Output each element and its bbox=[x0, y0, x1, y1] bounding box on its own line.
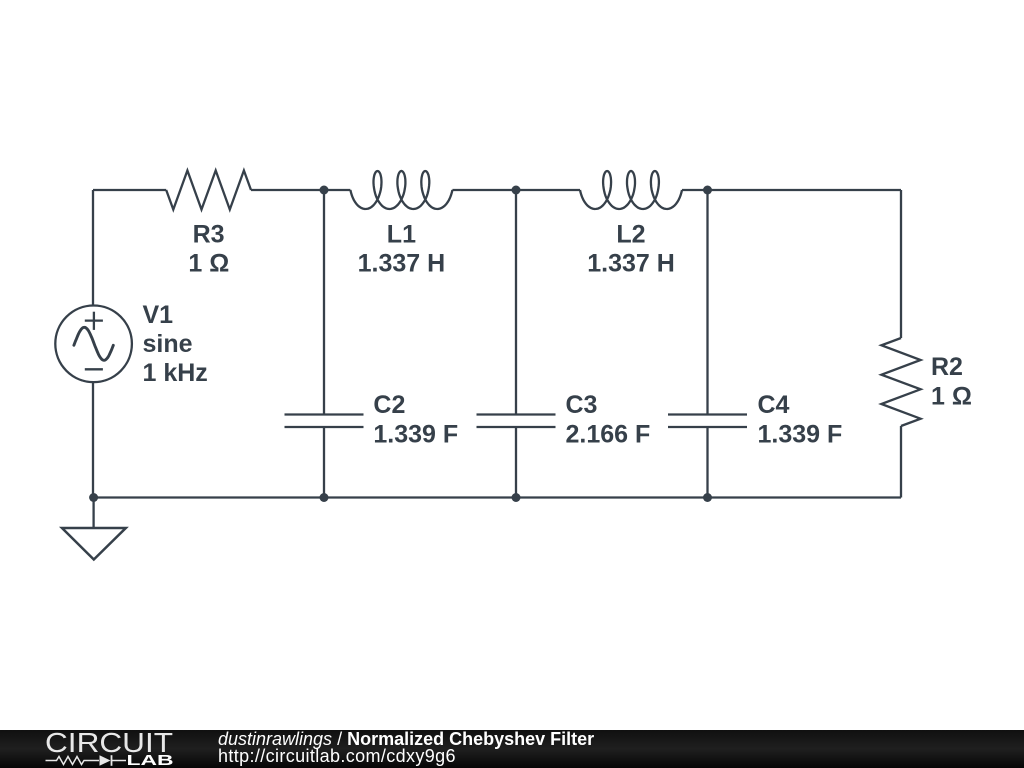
svg-text:R3: R3 bbox=[193, 221, 225, 249]
wire capacitor C3 to bottom rail bbox=[515, 427, 517, 498]
svg-text:C3: C3 bbox=[566, 391, 598, 419]
resistor R3 bbox=[166, 171, 251, 210]
svg-text:1 kHz: 1 kHz bbox=[143, 359, 208, 387]
footer title line bbox=[218, 729, 594, 749]
svg-text:1.337 H: 1.337 H bbox=[358, 250, 446, 278]
wire capacitor C2 to bottom rail bbox=[323, 427, 325, 498]
svg-text:1.339 F: 1.339 F bbox=[373, 421, 458, 449]
rail junction dot under C2 bbox=[320, 493, 329, 502]
wire top wire down to capacitor C2 bbox=[323, 190, 325, 415]
capacitor C4 bbox=[668, 415, 747, 428]
svg-text:C2: C2 bbox=[373, 391, 405, 419]
wire bottom rail bbox=[93, 496, 901, 498]
wire L2 to top-right corner through node C bbox=[682, 189, 901, 191]
wire V1 to bottom rail bbox=[92, 382, 94, 497]
svg-text:V1: V1 bbox=[143, 301, 174, 329]
footer url line bbox=[218, 746, 456, 766]
wire top wire down to capacitor C4 bbox=[706, 190, 708, 415]
wire capacitor C4 to bottom rail bbox=[706, 427, 708, 498]
rail junction dot under C4 bbox=[703, 493, 712, 502]
wire L1 to L2 through node B bbox=[452, 189, 580, 191]
wire top wire down to capacitor C3 bbox=[515, 190, 517, 415]
voltage source V1 bbox=[55, 306, 132, 383]
svg-text:LAB: LAB bbox=[127, 752, 174, 768]
wire top-left horizontal from V1 branch to R3 bbox=[93, 189, 166, 191]
CircuitLab logo bbox=[0, 730, 200, 768]
svg-text:C4: C4 bbox=[758, 391, 790, 419]
wire R3 to L1 through node A bbox=[251, 189, 350, 191]
capacitor C2 bbox=[285, 415, 364, 428]
ground node junction dot bbox=[89, 493, 98, 502]
footer bar bbox=[0, 730, 1024, 768]
ground bbox=[62, 498, 126, 560]
rail junction dot under C3 bbox=[512, 493, 521, 502]
svg-text:sine: sine bbox=[143, 330, 193, 358]
svg-text:1.337 H: 1.337 H bbox=[587, 250, 675, 278]
node B junction dot (L1/L2/C3) bbox=[512, 186, 521, 195]
wire R2 to bottom rail bbox=[900, 426, 902, 498]
svg-text:1 Ω: 1 Ω bbox=[931, 383, 972, 411]
svg-text:1 Ω: 1 Ω bbox=[188, 250, 229, 278]
node C junction dot (L2/C4/R2) bbox=[703, 186, 712, 195]
svg-text:R2: R2 bbox=[931, 353, 963, 381]
capacitor C3 bbox=[477, 415, 556, 428]
svg-text:2.166 F: 2.166 F bbox=[566, 421, 651, 449]
svg-text:1.339 F: 1.339 F bbox=[758, 421, 843, 449]
resistor R2 bbox=[881, 338, 920, 426]
svg-text:L2: L2 bbox=[616, 221, 645, 249]
inductor L2 bbox=[580, 171, 682, 209]
wire left vertical from top wire to V1 bbox=[92, 190, 94, 306]
inductor L1 bbox=[350, 171, 452, 209]
wire right vertical down to R2 bbox=[900, 190, 902, 338]
svg-text:L1: L1 bbox=[387, 221, 416, 249]
node A junction dot (R3/L1/C2) bbox=[320, 186, 329, 195]
